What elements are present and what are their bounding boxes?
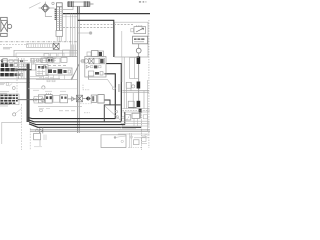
dash row mid: [43, 64, 66, 66]
wire pair main risers x77.6/79.2: [77, 7, 79, 15]
dash-dot boundary line mid: [0, 41, 77, 43]
drain valve cluster bottom center: [42, 127, 44, 133]
motor-pump unit M1 (left edge): [1, 17, 12, 36]
coupling block CB3 (dark): [137, 101, 141, 107]
node circle mid: [42, 86, 45, 89]
cylinder port ticks right: [84, 1, 89, 7]
reservoir box bottom center: [101, 135, 126, 148]
pipe crossing tank wall upper (dark): [18, 69, 32, 71]
pipe riser right A (dark): [106, 64, 121, 122]
relay row R3 (dark band): [0, 73, 4, 76]
junction boxes right of tank wall: [32, 64, 36, 70]
valve V3 with X: [53, 43, 59, 49]
node small circle above pump: [52, 2, 54, 4]
pipe riser right C (dark short): [124, 112, 126, 125]
label text lines left: [3, 48, 12, 49]
control block row CB-A (mid cluster upper): [44, 54, 49, 58]
wires verticals center-top: [66, 14, 75, 57]
filter unit F1 in right panel: [134, 27, 146, 34]
node dots inside tank box: [115, 110, 118, 113]
faint rail above assembly: [28, 88, 77, 90]
right panel enclosure (gray): [115, 22, 148, 57]
pump body blocks center: [91, 95, 96, 102]
wire pump stubs: [39, 2, 55, 17]
coupling block CB1 (dark): [137, 57, 141, 65]
valve block V2 below stack: [56, 31, 63, 37]
pipe run bottom line1 (dark): [32, 118, 116, 120]
pipe left lower crossing tank wall: [18, 99, 45, 101]
small marks mid: [47, 80, 50, 82]
narrow frame right mid: [130, 57, 139, 78]
pipe run bottom line2 (dark): [34, 121, 122, 123]
leader line to pump: [29, 3, 41, 9]
enclosure box E1 (gray nested): [14, 50, 77, 56]
relay row R0: [3, 59, 7, 63]
pipe diagonals right of manifold: [72, 64, 80, 80]
pipe run bottom line3 (dark): [36, 124, 125, 126]
wires from valve stack down: [57, 37, 61, 42]
pipe from pump group to tank box (dark): [104, 100, 110, 105]
dashed vertical bottom left: [21, 104, 23, 150]
node circle lower left + leader: [13, 113, 16, 116]
coupling block CB2 (dark): [137, 82, 141, 89]
pipe riser right B (dark): [105, 74, 116, 119]
wire mid horizontals: [36, 78, 77, 80]
pump P1 (diamond with circle, top left): [41, 4, 49, 12]
bottom right extra gray wiring: [122, 127, 136, 129]
cylinder port ticks left: [68, 1, 73, 7]
valve group VG1 (center right cluster): [87, 52, 91, 56]
manifold row MF-1 (mid, with dark cells): [46, 68, 72, 75]
dashed control line top right: [63, 27, 113, 29]
main line L2 (dark horizontal to right panel): [78, 20, 114, 57]
manifold band 2 right: [122, 108, 149, 110]
label lines bottom left: [0, 104, 10, 106]
wire rows right of tank wall: [18, 59, 56, 63]
manifold row 1 right: [122, 91, 149, 93]
dashed vertical control line: [16, 57, 18, 95]
relay row R2 (dark band): [1, 68, 5, 71]
coupling block CB4 (small dark): [139, 109, 142, 113]
manifold verticals right: [124, 57, 144, 109]
bottom right terminal cluster: [118, 133, 150, 135]
leader inside tank box: [105, 106, 121, 120]
motor circle in right column: [138, 44, 140, 48]
left lower terminal bank (text rows): [0, 94, 19, 105]
pipe run bottom line4 (dark): [38, 126, 142, 128]
node dots bottom right: [121, 140, 123, 142]
label dashes bottom center: [59, 110, 75, 112]
right column main vertical: [138, 57, 140, 102]
heat exchanger row (center assembly): [46, 93, 50, 95]
label lines left lower: [0, 92, 9, 93]
tank corner staircase fan: [28, 118, 32, 119]
dashed page border right: [148, 20, 150, 148]
main line L1 (dark horizontal): [63, 13, 150, 15]
node circle on dashed line: [12, 87, 15, 90]
pipe run bottom gray lines: [30, 129, 150, 131]
valve block right lower: [128, 101, 134, 107]
terminal strip TB1: [27, 44, 53, 48]
tank box T2 (bottom right, dark border): [104, 105, 120, 122]
gray box bottom left: [2, 122, 22, 144]
wire rails left block: [0, 78, 60, 80]
relay row R1 (dark band): [1, 63, 4, 67]
nameplate box in right panel: [133, 36, 148, 44]
tank wall (thick dark bar): [27, 64, 30, 123]
box E1 internals: [63, 50, 71, 57]
control block row CB-B (mid cluster boxes): [41, 58, 46, 63]
label marks upper-left of terminal bank: [0, 83, 5, 85]
cylinder rod mark: [90, 3, 94, 5]
valve stack V1 (ladder column): [57, 3, 63, 31]
corner marks top right: [139, 1, 147, 2]
label dashes above assembly: [33, 90, 66, 91]
pump group center (x-box coupling): [77, 95, 83, 102]
leader with node dot mid right: [78, 32, 89, 34]
wire cylinder to ladder: [63, 7, 73, 10]
bottom right cluster boxes: [124, 115, 130, 120]
check valve center pipe: [72, 97, 75, 101]
cylinder CYL1 (top, horizontal): [68, 2, 91, 6]
check valve arrows center: [85, 96, 88, 101]
valve stack solenoid ticks: [55, 9, 57, 20]
manifold drop wires: [49, 75, 65, 79]
